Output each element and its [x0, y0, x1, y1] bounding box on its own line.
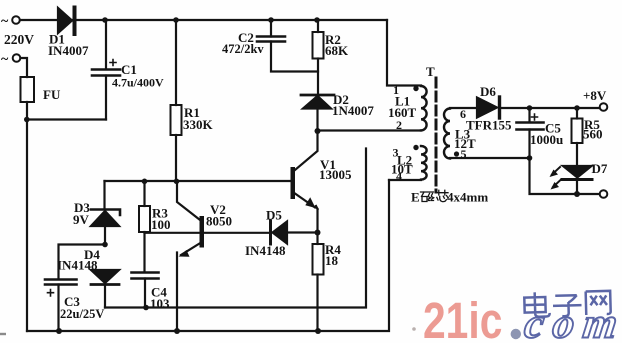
- watermark glyph wang: [586, 291, 611, 315]
- label D3 9V: [73, 200, 90, 227]
- winding L2: [421, 146, 427, 180]
- output terminal plus: [600, 103, 608, 111]
- svg-text:IN4148: IN4148: [245, 243, 286, 258]
- svg-text:1N4007: 1N4007: [332, 103, 374, 118]
- svg-text:21ic: 21ic: [423, 292, 502, 343]
- svg-text:560: 560: [583, 127, 603, 142]
- wire junction to C1 bottom: [27, 118, 106, 120]
- svg-text:D5: D5: [266, 208, 282, 223]
- wire pin6: [450, 107, 477, 109]
- wire pin4: [389, 179, 421, 181]
- diode D5: [205, 221, 318, 244]
- svg-text:220V: 220V: [4, 32, 34, 47]
- label R1 330K: [183, 105, 214, 132]
- capacitor C5: [517, 108, 600, 194]
- watermark glyph zi: [553, 295, 582, 316]
- node bottom rail V2: [174, 328, 180, 334]
- wire left rail: [26, 102, 28, 331]
- node bottom rail C3: [56, 328, 62, 334]
- label D1 IN4007: [48, 32, 89, 59]
- watermark dot: [511, 329, 521, 339]
- resistor R4: [313, 233, 324, 332]
- core dashed line: [435, 78, 438, 192]
- wire terminal2 to fuse: [21, 58, 28, 77]
- label C5 1000u: [530, 121, 563, 148]
- svg-text:10T: 10T: [391, 162, 413, 177]
- svg-text:~: ~: [1, 52, 9, 67]
- svg-text:2: 2: [396, 118, 402, 132]
- wire winding pin2: [318, 129, 422, 131]
- diode D4: [91, 270, 119, 308]
- capacitor C2: [257, 20, 318, 72]
- node bottom rail R4: [315, 328, 321, 334]
- diode D6: [477, 97, 600, 118]
- zener D3: [91, 181, 120, 245]
- svg-text:18: 18: [325, 253, 339, 268]
- capacitor C1: [92, 20, 120, 120]
- svg-text:IN4148: IN4148: [57, 258, 98, 273]
- node out rail R5: [574, 105, 580, 111]
- node D3 D4 C3: [102, 242, 108, 248]
- svg-text:100: 100: [151, 217, 171, 232]
- diode D2: [301, 95, 334, 131]
- capacitor C4: [132, 273, 159, 308]
- svg-text:22u/25V: 22u/25V: [60, 307, 104, 321]
- node top rail C1: [102, 17, 108, 23]
- watermark glyph dian: [524, 292, 550, 317]
- node phase dot L3: [454, 151, 459, 156]
- svg-text:E: E: [411, 190, 420, 205]
- svg-text:TFR155: TFR155: [466, 118, 512, 133]
- svg-text:9V: 9V: [73, 212, 90, 227]
- node collector junction: [315, 128, 321, 134]
- svg-text:T: T: [426, 64, 435, 79]
- label D4 IN4148: [57, 247, 100, 273]
- LED D7: [562, 166, 592, 194]
- label V2 8050: [206, 202, 232, 229]
- label R3 100: [151, 206, 171, 233]
- node base rail R3: [142, 179, 148, 185]
- label R2 68K: [325, 32, 349, 58]
- svg-text:D6: D6: [480, 84, 496, 99]
- svg-text:4.7u/400V: 4.7u/400V: [112, 76, 164, 90]
- label C3 22u/25V: [60, 294, 104, 321]
- label D5 IN4148: [245, 208, 286, 259]
- transistor V1: [291, 131, 318, 233]
- wire pin1: [387, 20, 421, 86]
- svg-text:160T: 160T: [388, 105, 417, 120]
- resistor R1: [171, 20, 182, 182]
- wire pin5: [450, 157, 530, 159]
- fuse FU: [21, 77, 35, 102]
- watermark 21ic: [423, 292, 502, 343]
- label C4 103: [150, 285, 170, 312]
- node pin5 C5: [527, 155, 533, 161]
- resistor R3: [139, 182, 150, 273]
- label C2 472/2kv: [222, 30, 264, 56]
- svg-text:D7: D7: [592, 161, 608, 176]
- label V1 13005: [319, 157, 352, 182]
- LED arrows D7: [550, 167, 562, 190]
- svg-text:8050: 8050: [206, 214, 232, 229]
- svg-text:com: com: [522, 300, 622, 343]
- label E core: [411, 190, 488, 205]
- label L3 12T: [454, 127, 476, 152]
- svg-text:1000u: 1000u: [530, 132, 563, 147]
- bottom left stray mark: [0, 333, 6, 335]
- svg-text:103: 103: [150, 296, 170, 311]
- node top rail R1: [173, 17, 179, 23]
- svg-text:~: ~: [1, 14, 9, 29]
- svg-text:13005: 13005: [319, 167, 352, 182]
- diode D1: [58, 8, 75, 35]
- svg-text:4x4mm: 4x4mm: [447, 190, 488, 205]
- svg-text:IN4007: IN4007: [48, 43, 89, 58]
- wire bottom rail: [27, 180, 389, 331]
- label L1 160T: [388, 94, 417, 121]
- transistor V2: [145, 182, 205, 332]
- svg-text:68K: 68K: [325, 43, 349, 58]
- wire top rail: [20, 19, 387, 21]
- resistor R2: [313, 20, 324, 94]
- node emitter junction: [315, 230, 321, 236]
- label D2 1N4007: [332, 92, 374, 118]
- label R4 18: [325, 242, 341, 268]
- svg-text:472/2kv: 472/2kv: [222, 42, 264, 56]
- stray speck: [412, 327, 416, 331]
- winding L1: [421, 86, 427, 130]
- wire V1 base rail: [105, 180, 291, 182]
- winding L3: [444, 109, 450, 159]
- glyph xin core: [436, 190, 449, 201]
- label R5 560: [583, 117, 603, 142]
- node phase dot L2: [413, 145, 418, 150]
- node out bottom D7: [574, 191, 580, 197]
- AC input terminal 1: [12, 16, 20, 24]
- node top rail C2: [268, 17, 274, 23]
- svg-text:FU: FU: [43, 87, 61, 102]
- node mid bottom C4: [143, 305, 149, 311]
- glyph ci magnetic: [421, 192, 434, 202]
- svg-text:+8V: +8V: [583, 88, 607, 103]
- capacitor C3: [45, 245, 105, 332]
- node phase dot L1: [413, 86, 418, 91]
- node out rail C5: [527, 105, 533, 111]
- node junction left rail: [24, 117, 30, 123]
- label L2 10T: [391, 153, 413, 177]
- resistor R5: [572, 108, 583, 166]
- output terminal minus: [600, 190, 608, 198]
- wire mid bottom: [105, 149, 366, 308]
- AC input terminal 2: [13, 54, 21, 62]
- label C1 4.7u/400V: [112, 62, 164, 90]
- node top rail R2: [314, 17, 320, 23]
- svg-text:330K: 330K: [183, 117, 214, 132]
- node base rail R1V2: [174, 179, 180, 185]
